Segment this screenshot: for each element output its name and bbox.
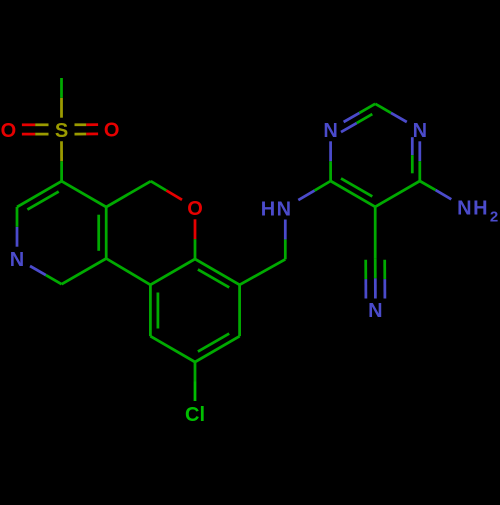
bond NH-C4 pyrimidine	[298, 191, 314, 201]
pyridine C6-N1	[46, 275, 62, 284]
pyrimidine C4-N1	[329, 161, 332, 181]
benzene B6-B1	[150, 259, 195, 285]
bond benzene-CH2	[240, 259, 286, 285]
benzene B3=B4 double	[195, 336, 240, 362]
pyridine N1-C2	[16, 227, 19, 247]
benzene B5=B6 double	[149, 285, 152, 336]
bond C4p-CH2	[106, 181, 151, 207]
svg-text:H: H	[261, 198, 275, 220]
pyridine C4=C5 double	[105, 207, 108, 259]
S=O right double bond	[75, 123, 87, 126]
bond C-Cl	[194, 362, 197, 382]
benzene B4-B5	[150, 336, 195, 362]
svg-text:N: N	[323, 120, 337, 142]
svg-text:N: N	[368, 300, 382, 322]
bond CH2-NH	[284, 239, 287, 259]
bond C5-C(nitrile)	[374, 207, 377, 258]
svg-text:N: N	[413, 120, 427, 142]
S=O left double bond	[22, 123, 35, 126]
pyrimidine N3=C6 double	[418, 141, 421, 161]
benzene B2-B3	[238, 285, 241, 336]
nitrile triple bond	[364, 260, 367, 279]
svg-text:H: H	[473, 197, 487, 219]
bond S-C3 pyridine	[60, 141, 63, 161]
svg-text:N: N	[457, 197, 471, 219]
pyrimidine C6-C5	[375, 181, 420, 207]
bond CH2-O	[151, 181, 167, 190]
benzene B1=B2 double	[195, 259, 240, 285]
bond S-CH3 (methyl)	[60, 98, 63, 118]
svg-text:2: 2	[490, 208, 498, 225]
bond O-aryl	[194, 219, 197, 239]
pyridine C5-C6	[62, 259, 107, 285]
svg-text:O: O	[1, 120, 17, 142]
svg-text:O: O	[187, 198, 203, 220]
biaryl bond benzene-pyridine	[106, 259, 150, 285]
pyrimidine N1=C2 double	[344, 113, 360, 122]
pyridine C3-C4	[62, 181, 107, 207]
pyrimidine C2-N3	[375, 104, 391, 113]
pyridine C2=C3 double	[17, 181, 62, 207]
svg-text:O: O	[104, 120, 120, 142]
svg-text:S: S	[55, 120, 68, 142]
svg-text:N: N	[10, 249, 24, 271]
pyrimidine C5=C4 double	[331, 181, 376, 207]
svg-text:N: N	[277, 198, 291, 220]
svg-text:Cl: Cl	[185, 404, 205, 426]
bond C6-NH2	[420, 181, 436, 190]
